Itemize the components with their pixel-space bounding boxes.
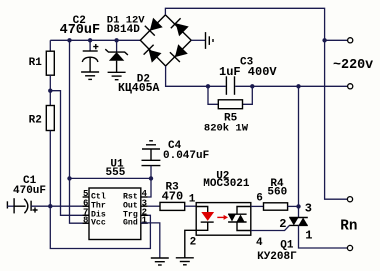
svg-text:Thr: Thr [91, 201, 106, 211]
zener diode D1 [105, 49, 128, 55]
svg-text:1uF 400V: 1uF 400V [219, 65, 277, 79]
svg-text:R1: R1 [29, 57, 43, 69]
triac Q1 left triangle [289, 218, 298, 226]
node R4/triac junction [296, 204, 300, 208]
svg-text:Ctl: Ctl [91, 191, 106, 201]
bridge rectifier D2 diamond [140, 15, 191, 66]
wire C4 top lead [150, 149, 152, 160]
wire triac bottom to Rn terminal [299, 225, 348, 248]
wire C1 left lead [7, 205, 14, 207]
terminal Rn bottom [347, 245, 352, 250]
MOC internal triac top bar [228, 213, 247, 215]
chassis ground right of bridge [205, 32, 207, 49]
pin stub Ctl 5 [83, 196, 89, 198]
resistor R1 [46, 51, 54, 75]
wire triac line vertical [298, 86, 300, 217]
resistor R3 [160, 202, 185, 210]
node junction below R1 [48, 89, 52, 93]
svg-text:2: 2 [279, 217, 286, 231]
pin stub Dis 7 [83, 214, 89, 216]
wire Gnd pin to ground [141, 223, 160, 258]
wire bridge bottom corner to C3/R5 [166, 66, 226, 86]
wire to 220v bottom terminal [299, 85, 348, 87]
triac Q1 bottom bar [289, 224, 308, 226]
wire junction to Dis (pin7) [50, 91, 89, 216]
capacitor C4 [142, 159, 161, 161]
wire C1 right lead [31, 205, 50, 207]
svg-text:Rn: Rn [340, 219, 357, 235]
terminal Rn top [347, 197, 352, 202]
node Vcc/Rst branch [67, 176, 71, 180]
svg-text:555: 555 [106, 167, 126, 179]
node C4/Rst junction [149, 176, 153, 180]
wire Vcc vertical [70, 40, 90, 223]
capacitor C1 plus sign [32, 207, 37, 212]
svg-text:КЦ405А: КЦ405А [118, 82, 160, 95]
capacitor C1 [13, 198, 15, 213]
MOC pin6 internal lead [237, 207, 251, 215]
capacitor C1 stub end [6, 201, 8, 208]
wire to 220v top terminal [325, 39, 348, 41]
capacitor C3 [225, 76, 227, 95]
svg-text:470: 470 [162, 189, 184, 203]
wire MOC pin6 to R4 [251, 205, 264, 207]
wire C3 right [235, 85, 298, 87]
pin stub Trg 2 [141, 214, 148, 216]
svg-text:КУ208Г: КУ208Г [257, 251, 297, 263]
node line tap to triac [296, 84, 300, 88]
MOC internal triac right triangle [236, 215, 244, 223]
MOC pin1 internal lead [196, 207, 208, 213]
wire +12V rail top [50, 39, 140, 41]
wire R1 bottom to R2 [49, 75, 51, 105]
svg-text:R2: R2 [29, 115, 42, 127]
svg-text:470uF: 470uF [60, 23, 101, 38]
MOC internal triac left triangle [228, 214, 236, 221]
wire Rst to C4 node [148, 178, 151, 197]
node C1/Thr junction [48, 204, 52, 208]
wire R5 loop [208, 86, 252, 104]
svg-text:Q1: Q1 [280, 240, 294, 252]
svg-text:Out: Out [123, 202, 138, 211]
ground above C4 (inverted) [142, 148, 160, 150]
pin stub Gnd 1 [141, 222, 148, 224]
wire bridge top corner to top rail and right vertical [165, 8, 347, 199]
svg-text:Vcc: Vcc [91, 219, 106, 228]
svg-text:0.047uF: 0.047uF [163, 150, 209, 162]
wire R4 to triac node [288, 205, 299, 207]
triac Q1 top bar [289, 217, 308, 219]
MOC red arrow [217, 216, 224, 218]
wire R2 bottom down to Trg loop [50, 131, 150, 249]
pin stub Vcc 8 [83, 222, 89, 224]
wire bridge right corner to chassis [191, 39, 205, 41]
resistor R5 [218, 100, 242, 109]
diode D2d bottom-right [175, 44, 188, 57]
svg-text:1: 1 [305, 228, 312, 242]
pin stub Thr 6 [83, 205, 89, 207]
triac Q1 right triangle [299, 218, 308, 226]
terminal 220v bottom [348, 84, 353, 89]
ground below D1 [108, 71, 126, 73]
svg-text:6: 6 [256, 193, 263, 205]
diode D2b bottom-left [149, 50, 162, 63]
svg-text:560: 560 [267, 187, 287, 199]
MOC pin4 internal lead [237, 222, 251, 231]
svg-text:2: 2 [190, 237, 197, 249]
MOC LED cathode bar [201, 221, 214, 223]
wire R3 to MOC pin1 [185, 205, 197, 207]
wire C4 bottom lead [150, 166, 152, 179]
svg-text:3: 3 [305, 202, 312, 216]
diode D2c top-right [176, 23, 189, 36]
wire C2 top lead [89, 40, 91, 51]
node C3 left junction [206, 84, 210, 88]
svg-text:820k 1W: 820k 1W [204, 122, 249, 134]
MOC LED (red) [201, 212, 214, 221]
terminal 220v top [348, 38, 353, 43]
svg-text:Rst: Rst [123, 192, 138, 201]
wire Out to R3 [148, 205, 160, 207]
svg-text:1: 1 [142, 215, 148, 225]
svg-text:4: 4 [256, 237, 263, 249]
resistor R2 [46, 106, 54, 131]
diode D2a top-left [150, 18, 163, 31]
ground below 555 [151, 257, 169, 259]
svg-text:~220v: ~220v [333, 58, 373, 73]
capacitor C2 [83, 50, 98, 52]
wire D1 top lead [116, 40, 118, 52]
wire R1 top lead [49, 40, 51, 51]
pin stub Rst 4 [141, 196, 148, 198]
svg-text:8: 8 [83, 215, 88, 225]
wire Rst branch horizontal [70, 177, 152, 179]
wire Thr (pin6) [50, 205, 89, 207]
MOC pin2 lead to ground [185, 222, 208, 258]
node D1 tap [114, 38, 118, 42]
node 220v top tap [322, 38, 326, 42]
node Vcc rail tap [67, 38, 71, 42]
svg-text:1: 1 [189, 194, 196, 206]
MOC internal triac bottom bar [228, 221, 247, 223]
svg-text:D814D: D814D [107, 24, 140, 36]
capacitor C2 plus sign [93, 44, 98, 49]
svg-text:MOC3021: MOC3021 [203, 178, 250, 190]
555 timer U1 box [89, 188, 141, 240]
svg-text:Gnd: Gnd [123, 218, 138, 228]
pin stub Out 3 [141, 205, 148, 207]
wire MOC pin4 gate wire [251, 225, 290, 230]
node C3 right junction [250, 84, 254, 88]
ground below MOC pin2 [176, 257, 194, 259]
node C2 tap [88, 38, 92, 42]
ground below C2 [81, 71, 99, 73]
optocoupler U2 MOC3021 box [196, 203, 251, 236]
svg-text:470uF: 470uF [13, 185, 46, 197]
resistor R4 [264, 203, 288, 210]
wire C2 to ground [89, 57, 91, 72]
